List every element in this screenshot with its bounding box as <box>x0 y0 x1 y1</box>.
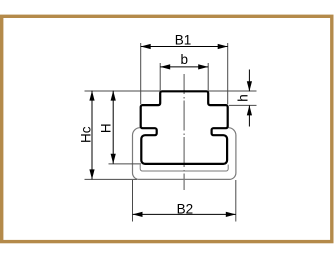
extension line B1 right <box>227 43 229 104</box>
dimension Hc arrow up <box>89 91 94 101</box>
dimension B1 arrow left <box>141 44 151 49</box>
dimension h line upper segment <box>248 70 250 92</box>
dimension H arrow up <box>111 91 116 101</box>
extension line B2 left <box>132 180 134 222</box>
dimension b arrow left <box>160 64 170 69</box>
dimension B2 arrow left <box>133 212 143 217</box>
svg-text:B1: B1 <box>175 33 192 48</box>
dimension H arrow down <box>111 154 116 164</box>
extension line H bottom <box>109 163 142 165</box>
dimension H line <box>112 91 114 164</box>
extension line h top <box>208 90 256 92</box>
dimension Hc arrow down <box>89 169 94 179</box>
svg-text:B2: B2 <box>177 202 194 217</box>
svg-text:h: h <box>235 94 250 102</box>
extension line b right <box>207 63 209 91</box>
dimension B2 line <box>133 213 236 215</box>
steel channel outer contour <box>133 128 236 180</box>
svg-text:b: b <box>180 52 188 67</box>
dimension h line lower segment <box>248 105 250 126</box>
plastic profile outline <box>141 91 228 164</box>
extension line Hc bottom <box>85 178 138 180</box>
dimension B2 arrow right <box>226 212 236 217</box>
extension line b left <box>159 63 161 91</box>
extension line B1 left <box>140 43 142 104</box>
dimension B1 arrow right <box>218 44 228 49</box>
dimension B1 line <box>141 46 228 48</box>
dimension h arrow up <box>247 105 252 115</box>
extension line h bottom (shoulder) <box>229 104 257 106</box>
dimension b arrow right <box>198 64 208 69</box>
extension line top (Hc/H/B1 datum) <box>85 90 161 92</box>
svg-text:H: H <box>98 123 113 133</box>
dimension h arrow down <box>247 81 252 91</box>
svg-text:Hc: Hc <box>78 126 93 143</box>
dimension Hc line <box>91 91 93 180</box>
steel channel inner contour <box>140 165 228 171</box>
centerline <box>183 74 185 190</box>
dimension b line <box>160 66 208 68</box>
extension line B2 right <box>235 180 237 222</box>
